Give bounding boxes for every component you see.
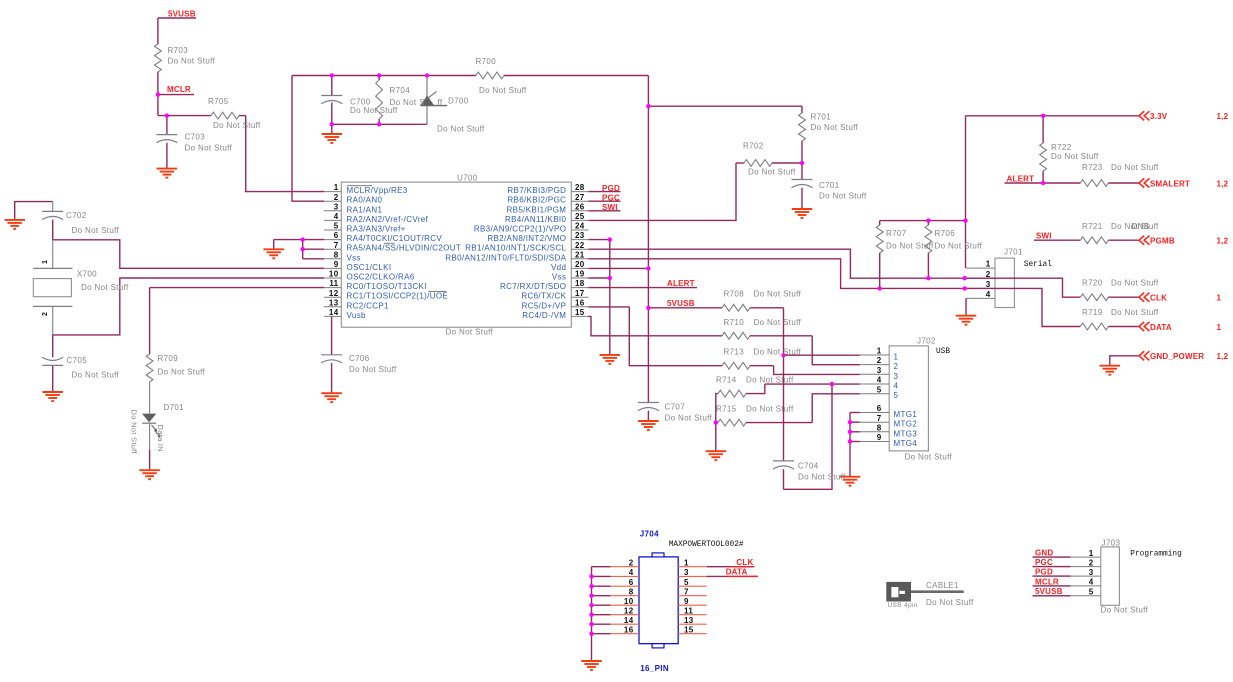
- svg-text:Do Not Stuff: Do Not Stuff: [72, 226, 120, 235]
- svg-text:24: 24: [575, 222, 585, 231]
- svg-text:Vss: Vss: [347, 253, 361, 262]
- svg-text:RA1/AN1: RA1/AN1: [347, 205, 383, 214]
- svg-text:R702: R702: [743, 142, 764, 151]
- svg-text:1: 1: [42, 260, 49, 264]
- svg-text:5: 5: [684, 578, 689, 587]
- svg-text:11: 11: [329, 279, 338, 288]
- svg-text:10: 10: [329, 270, 339, 279]
- svg-text:CLK: CLK: [736, 558, 753, 567]
- svg-text:PGMB: PGMB: [1150, 237, 1175, 246]
- svg-text:17: 17: [575, 289, 585, 298]
- svg-text:18: 18: [575, 279, 585, 288]
- svg-text:MTG4: MTG4: [894, 439, 918, 448]
- svg-text:2: 2: [894, 362, 899, 371]
- svg-text:PGC: PGC: [602, 193, 620, 202]
- svg-text:RC5/D+/VP: RC5/D+/VP: [522, 301, 567, 310]
- svg-text:USB 4pin: USB 4pin: [888, 602, 918, 609]
- svg-text:4: 4: [334, 212, 339, 221]
- svg-text:11: 11: [684, 607, 693, 616]
- svg-text:26: 26: [575, 202, 585, 211]
- svg-text:Do Not Stuff: Do Not Stuff: [479, 86, 527, 95]
- svg-text:6: 6: [334, 231, 339, 240]
- svg-text:R704: R704: [390, 86, 411, 95]
- svg-text:R710: R710: [724, 318, 745, 327]
- svg-text:15: 15: [684, 626, 694, 635]
- svg-text:Do Not Stuff: Do Not Stuff: [926, 598, 974, 607]
- svg-text:MTG3: MTG3: [894, 429, 918, 438]
- svg-text:USB: USB: [936, 348, 950, 356]
- svg-text:DATA: DATA: [726, 568, 748, 577]
- svg-text:RA2/AN2/Vref-/CVref: RA2/AN2/Vref-/CVref: [347, 215, 429, 224]
- svg-text:5VUSB: 5VUSB: [667, 299, 695, 308]
- svg-text:R703: R703: [168, 46, 189, 55]
- svg-text:R715: R715: [716, 404, 737, 413]
- svg-text:Vss: Vss: [552, 273, 566, 282]
- svg-text:D700: D700: [448, 97, 469, 106]
- svg-text:1: 1: [894, 353, 899, 362]
- svg-text:2: 2: [334, 193, 339, 202]
- svg-text:R722: R722: [1051, 143, 1072, 152]
- svg-text:MCLR/Vpp/RE3: MCLR/Vpp/RE3: [347, 186, 408, 195]
- svg-text:21: 21: [575, 250, 585, 259]
- svg-text:RC0/T1OSO/T13CKI: RC0/T1OSO/T13CKI: [347, 282, 427, 291]
- svg-text:4: 4: [894, 382, 899, 391]
- svg-text:R701: R701: [811, 113, 832, 122]
- svg-text:GND: GND: [1035, 549, 1053, 558]
- svg-text:SMALERT: SMALERT: [1150, 179, 1190, 188]
- svg-text:Do Not Stuff: Do Not Stuff: [1111, 308, 1159, 317]
- svg-text:8: 8: [334, 250, 339, 259]
- svg-text:2: 2: [42, 312, 49, 316]
- svg-text:R706: R706: [935, 229, 956, 238]
- svg-text:Programming: Programming: [1130, 551, 1182, 559]
- svg-text:R709: R709: [158, 354, 179, 363]
- svg-text:8: 8: [629, 588, 634, 597]
- svg-text:3: 3: [986, 280, 991, 289]
- svg-text:Do Not Stuff: Do Not Stuff: [350, 106, 398, 115]
- svg-text:12: 12: [624, 607, 634, 616]
- svg-text:4: 4: [1089, 578, 1094, 587]
- svg-text:OSC2/CLKO/RA6: OSC2/CLKO/RA6: [347, 273, 415, 282]
- svg-text:3: 3: [1089, 568, 1094, 577]
- svg-text:ff: ff: [438, 98, 443, 107]
- svg-text:ALERT: ALERT: [667, 279, 695, 288]
- svg-text:RB6/KBI2/PGC: RB6/KBI2/PGC: [507, 196, 566, 205]
- svg-text:ALERT: ALERT: [1007, 174, 1035, 183]
- svg-text:27: 27: [575, 193, 585, 202]
- svg-text:Do Not Stuff: Do Not Stuff: [72, 371, 120, 380]
- svg-text:J702: J702: [917, 337, 936, 346]
- svg-text:7: 7: [877, 414, 882, 423]
- svg-text:R721: R721: [1082, 222, 1103, 231]
- svg-text:12: 12: [329, 289, 339, 298]
- svg-text:Do Not Stuff: Do Not Stuff: [1101, 606, 1149, 615]
- svg-text:22: 22: [575, 241, 585, 250]
- svg-text:R713: R713: [724, 348, 745, 357]
- svg-text:5: 5: [894, 391, 899, 400]
- svg-text:2: 2: [1089, 558, 1094, 567]
- svg-text:Do Not Stuff: Do Not Stuff: [81, 283, 129, 292]
- svg-text:Do Not Stuff: Do Not Stuff: [168, 57, 216, 66]
- svg-text:1: 1: [684, 559, 689, 568]
- svg-text:Do Not Stuff: Do Not Stuff: [811, 123, 859, 132]
- svg-text:RB2/AN8/INT2/VMO: RB2/AN8/INT2/VMO: [487, 234, 566, 243]
- svg-text:5: 5: [334, 222, 339, 231]
- svg-text:Do Not Stuff: Do Not Stuff: [1051, 152, 1099, 161]
- svg-text:15: 15: [575, 308, 585, 317]
- svg-text:RB3/AN9/CCP2(1)/VPO: RB3/AN9/CCP2(1)/VPO: [474, 225, 566, 234]
- svg-text:25: 25: [575, 212, 585, 221]
- svg-text:20: 20: [575, 260, 585, 269]
- svg-text:3: 3: [894, 372, 899, 381]
- svg-text:16: 16: [624, 626, 634, 635]
- svg-text:4: 4: [986, 290, 991, 299]
- svg-text:14: 14: [624, 616, 634, 625]
- svg-text:RB7/KBI3/PGD: RB7/KBI3/PGD: [507, 186, 566, 195]
- svg-text:C705: C705: [67, 356, 88, 365]
- svg-text:Do Not Stuff: Do Not Stuff: [185, 144, 233, 153]
- svg-text:D701: D701: [164, 403, 185, 412]
- svg-text:5: 5: [877, 385, 882, 394]
- svg-text:R720: R720: [1082, 279, 1103, 288]
- svg-text:8: 8: [877, 423, 882, 432]
- svg-text:16_PIN: 16_PIN: [640, 664, 669, 673]
- svg-text:1,2: 1,2: [1217, 237, 1229, 246]
- svg-text:C707: C707: [665, 403, 686, 412]
- svg-text:SWI: SWI: [602, 203, 618, 212]
- svg-text:Do Not Stuff: Do Not Stuff: [935, 242, 983, 251]
- svg-text:Do Not Stuff: Do Not Stuff: [746, 404, 794, 413]
- svg-text:RB5/KBI1/PGM: RB5/KBI1/PGM: [507, 205, 567, 214]
- svg-text:Vusb: Vusb: [347, 311, 367, 320]
- svg-text:J701: J701: [1004, 248, 1023, 257]
- svg-text:PGD: PGD: [602, 184, 620, 193]
- svg-text:MAXPOWERTOOL002#: MAXPOWERTOOL002#: [669, 541, 744, 549]
- svg-text:RA4/T0CKI/C1OUT/RCV: RA4/T0CKI/C1OUT/RCV: [347, 234, 443, 243]
- svg-text:SWI: SWI: [1036, 231, 1052, 240]
- svg-text:RB4/AN11/KBI0: RB4/AN11/KBI0: [505, 215, 567, 224]
- svg-text:MCLR: MCLR: [167, 85, 191, 94]
- svg-text:PGC: PGC: [1035, 558, 1053, 567]
- svg-text:RC7/RX/DT/SDO: RC7/RX/DT/SDO: [500, 282, 566, 291]
- svg-text:R707: R707: [886, 229, 907, 238]
- svg-text:Do Not Stuff: Do Not Stuff: [748, 168, 796, 177]
- svg-text:9: 9: [877, 433, 882, 442]
- svg-text:DNS: DNS: [1132, 222, 1150, 231]
- svg-text:10: 10: [624, 597, 634, 606]
- svg-text:5VUSB: 5VUSB: [1035, 587, 1063, 596]
- svg-text:6: 6: [629, 578, 634, 587]
- svg-text:CLK: CLK: [1150, 294, 1167, 303]
- svg-text:1: 1: [1089, 549, 1094, 558]
- svg-text:R705: R705: [208, 97, 229, 106]
- svg-text:1: 1: [1217, 323, 1222, 332]
- svg-text:14: 14: [329, 308, 339, 317]
- svg-text:Do Not Stuff: Do Not Stuff: [158, 368, 206, 377]
- svg-text:R719: R719: [1082, 308, 1103, 317]
- svg-text:RB0/AN12/INT0/FLT0/SDI/SDA: RB0/AN12/INT0/FLT0/SDI/SDA: [445, 253, 566, 262]
- svg-text:C703: C703: [185, 133, 206, 142]
- svg-text:Do Not Stuff: Do Not Stuff: [1111, 279, 1159, 288]
- svg-text:Do Not Stuff: Do Not Stuff: [886, 242, 934, 251]
- svg-text:Do Not Stuff: Do Not Stuff: [746, 376, 794, 385]
- svg-text:Vdd: Vdd: [551, 263, 566, 272]
- svg-text:4: 4: [877, 376, 882, 385]
- svg-text:13: 13: [329, 298, 339, 307]
- svg-text:16: 16: [575, 298, 585, 307]
- svg-text:1,2: 1,2: [1217, 179, 1229, 188]
- svg-text:2: 2: [877, 356, 882, 365]
- svg-text:Do Not S: Do Not S: [390, 98, 425, 107]
- svg-text:R714: R714: [716, 376, 737, 385]
- svg-text:RC1/T1OSI/CCP2(1)/UOE: RC1/T1OSI/CCP2(1)/UOE: [347, 292, 449, 301]
- svg-text:Do Not Stuff: Do Not Stuff: [819, 192, 867, 201]
- svg-text:23: 23: [575, 231, 585, 240]
- svg-text:Do Not Stuff: Do Not Stuff: [754, 318, 802, 327]
- svg-text:Do Not Stuff: Do Not Stuff: [349, 365, 397, 374]
- svg-text:9: 9: [334, 260, 339, 269]
- svg-text:Do Not Stuff: Do Not Stuff: [130, 410, 139, 455]
- svg-text:Do Not Stuff: Do Not Stuff: [437, 124, 485, 133]
- svg-text:2: 2: [986, 270, 991, 279]
- svg-text:PGD: PGD: [1035, 568, 1053, 577]
- svg-text:Do Not Stuff: Do Not Stuff: [905, 453, 953, 462]
- svg-text:RA0/AN0: RA0/AN0: [347, 196, 383, 205]
- svg-text:MTG1: MTG1: [894, 410, 918, 419]
- svg-text:9: 9: [684, 597, 689, 606]
- svg-text:MCLR: MCLR: [1035, 577, 1059, 586]
- svg-text:OSC1/CLKI: OSC1/CLKI: [347, 263, 392, 272]
- svg-text:R723: R723: [1082, 163, 1103, 172]
- svg-text:3: 3: [877, 366, 882, 375]
- svg-text:1: 1: [986, 260, 991, 269]
- svg-text:GND_POWER: GND_POWER: [1150, 352, 1204, 361]
- svg-text:1: 1: [334, 183, 339, 192]
- svg-text:5: 5: [1089, 588, 1094, 597]
- svg-text:Do Not Stuff: Do Not Stuff: [1111, 163, 1159, 172]
- svg-text:C702: C702: [66, 211, 87, 220]
- svg-text:Do Not Stuff: Do Not Stuff: [754, 348, 802, 357]
- svg-text:R708: R708: [724, 290, 745, 299]
- svg-text:C701: C701: [819, 181, 840, 190]
- svg-text:Data IN: Data IN: [156, 425, 165, 453]
- svg-text:RA5/AN4/SS/HLVDIN/C2OUT: RA5/AN4/SS/HLVDIN/C2OUT: [347, 244, 462, 253]
- svg-text:5VUSB: 5VUSB: [168, 9, 196, 18]
- svg-text:3: 3: [684, 568, 689, 577]
- svg-text:Do Not Stuff: Do Not Stuff: [754, 290, 802, 299]
- svg-text:4: 4: [629, 568, 634, 577]
- svg-text:7: 7: [334, 241, 339, 250]
- svg-text:RC6/TX/CK: RC6/TX/CK: [521, 292, 566, 301]
- svg-text:13: 13: [684, 616, 694, 625]
- svg-text:2: 2: [629, 559, 634, 568]
- svg-text:MTG2: MTG2: [894, 420, 918, 429]
- svg-text:1,2: 1,2: [1217, 352, 1229, 361]
- svg-text:1: 1: [1217, 294, 1222, 303]
- svg-text:7: 7: [684, 588, 689, 597]
- svg-text:3: 3: [334, 202, 339, 211]
- svg-text:C704: C704: [798, 462, 819, 471]
- svg-text:28: 28: [575, 183, 585, 192]
- svg-text:X700: X700: [77, 270, 97, 279]
- svg-text:Do Not Stuff: Do Not Stuff: [798, 473, 846, 482]
- svg-text:C706: C706: [349, 354, 370, 363]
- svg-text:RC4/D-/VM: RC4/D-/VM: [522, 311, 566, 320]
- svg-text:1,2: 1,2: [1217, 112, 1229, 121]
- svg-text:19: 19: [575, 270, 585, 279]
- svg-text:U700: U700: [457, 173, 478, 182]
- svg-text:Do Not Stuff: Do Not Stuff: [665, 414, 713, 423]
- svg-text:Serial: Serial: [1024, 261, 1052, 269]
- svg-text:RB1/AN10/INT1/SCK/SCL: RB1/AN10/INT1/SCK/SCL: [465, 244, 566, 253]
- svg-text:CABLE1: CABLE1: [926, 581, 959, 590]
- svg-text:Do Not Stuff: Do Not Stuff: [213, 121, 261, 130]
- svg-text:DATA: DATA: [1150, 323, 1172, 332]
- svg-text:J704: J704: [640, 529, 659, 538]
- svg-text:RA3/AN3/Vref+: RA3/AN3/Vref+: [347, 225, 406, 234]
- svg-text:RC2/CCP1: RC2/CCP1: [347, 301, 390, 310]
- svg-text:1: 1: [877, 347, 882, 356]
- svg-text:Do Not Stuff: Do Not Stuff: [446, 328, 494, 337]
- svg-text:6: 6: [877, 404, 882, 413]
- svg-text:R700: R700: [476, 57, 497, 66]
- svg-text:3.3V: 3.3V: [1150, 112, 1168, 121]
- svg-text:J703: J703: [1102, 539, 1121, 548]
